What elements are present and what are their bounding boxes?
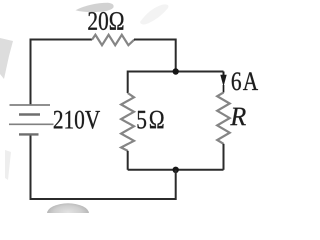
label 20ohm value xyxy=(88,12,123,30)
wire: node B down and across bottom to battery negative xyxy=(31,135,176,199)
label R xyxy=(230,108,246,125)
battery 210V (plates) xyxy=(9,105,54,134)
wire: 20ohm right lead to top-right corner down to node A xyxy=(134,40,176,72)
wire: inner top rail (5ohm top lead, across through node A to R branch corner) xyxy=(128,72,224,94)
label 210V value xyxy=(54,111,100,129)
wire: battery positive up left side and across top to 20ohm left lead xyxy=(31,40,93,105)
label 6A value xyxy=(232,72,258,90)
resistor R (right branch zigzag) xyxy=(217,93,230,144)
label 5ohm value xyxy=(138,111,164,129)
resistor 5ohm (left inner branch zigzag) xyxy=(121,93,134,151)
current arrow 6A (down right branch) xyxy=(220,72,226,93)
resistor 20ohm (zigzag in top wire) xyxy=(92,35,134,45)
wire: R bottom lead xyxy=(223,144,225,170)
node B (bottom junction dot) xyxy=(173,167,179,173)
wire: inner bottom rail (through node B) xyxy=(128,169,224,171)
node A (top junction dot) xyxy=(173,68,179,74)
wire: 5ohm bottom lead xyxy=(127,151,129,170)
